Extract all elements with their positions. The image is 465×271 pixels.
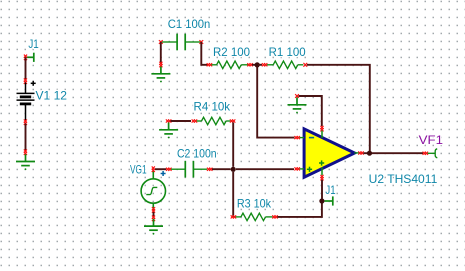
wire: [232, 123, 234, 167]
junction output: [367, 151, 372, 156]
svg-text:V1 12: V1 12: [36, 89, 68, 102]
capacitor C1: [162, 34, 200, 51]
node C2 right: [207, 168, 213, 171]
wire: [25, 124, 27, 151]
node VF1: [423, 152, 429, 155]
svg-text:R3 10k: R3 10k: [237, 198, 271, 211]
label J1: [28, 38, 38, 51]
node battery top: [24, 78, 27, 84]
node R3 left: [231, 215, 237, 218]
ground: [159, 123, 178, 139]
svg-text:J1: J1: [325, 184, 335, 197]
battery V1: [17, 81, 36, 121]
connector J1 out: [325, 196, 333, 205]
wire: [257, 67, 294, 138]
ground: [151, 67, 170, 83]
wire: [321, 180, 323, 199]
svg-text:C2 100n: C2 100n: [177, 147, 217, 160]
node R3 right: [272, 215, 278, 218]
wire: [171, 120, 192, 122]
wire: [155, 168, 166, 170]
resistor R4: [197, 117, 231, 125]
node C1 left: [159, 40, 163, 44]
wire feedback: [307, 65, 370, 151]
node -in: [294, 136, 300, 139]
generator VG1: [141, 171, 165, 212]
resistor R2: [212, 61, 249, 69]
label U2 THS4011: [369, 173, 438, 186]
label R2 100: [213, 46, 250, 59]
node C2 left: [166, 168, 172, 171]
wire: [299, 96, 322, 126]
node R2 left: [207, 63, 213, 66]
node VG1 bottom: [152, 207, 155, 213]
wire: [258, 64, 262, 66]
svg-text:R2 100: R2 100: [213, 46, 250, 59]
node VG1 top: [152, 166, 155, 172]
label C1 100n: [168, 18, 211, 31]
svg-text:R4 10k: R4 10k: [194, 101, 231, 114]
label R1 100: [269, 46, 306, 59]
node R4 left: [192, 119, 198, 122]
node battery bottom: [24, 119, 27, 125]
label VG1: [130, 164, 147, 177]
node R1 left: [262, 63, 268, 66]
label R3 10k: [237, 198, 271, 211]
node C1 right: [199, 40, 203, 44]
wire: [252, 64, 256, 66]
node +in: [294, 167, 300, 170]
label VF1: [419, 134, 443, 147]
label R4 10k: [194, 101, 231, 114]
svg-text:U2 THS4011: U2 THS4011: [369, 173, 438, 186]
plus marker: [161, 171, 166, 176]
svg-text:R1 100: R1 100: [269, 46, 306, 59]
svg-text:J1: J1: [28, 38, 38, 51]
wire: [153, 212, 155, 217]
node ground R4: [166, 119, 172, 122]
node R4 right: [230, 119, 236, 122]
svg-text:C1 100n: C1 100n: [168, 18, 211, 31]
junction J1 node: [319, 198, 324, 203]
ground: [288, 98, 307, 114]
probe VF1: [428, 149, 438, 158]
junction +in: [231, 167, 236, 172]
wire: [363, 152, 423, 154]
capacitor C2: [171, 161, 207, 178]
label C2 100n: [177, 147, 217, 160]
node R2 right: [247, 63, 253, 66]
wire: [232, 172, 234, 217]
connector J1: [24, 53, 34, 62]
node V- pin: [320, 175, 323, 181]
node R1 right: [303, 63, 307, 67]
wire: [201, 42, 207, 65]
node ground: [24, 149, 27, 155]
wire: [25, 57, 27, 79]
label J1 out: [325, 184, 335, 197]
wire: [236, 168, 294, 170]
ground: [144, 219, 163, 235]
wire: [277, 204, 322, 217]
op-amp U2: [300, 129, 360, 177]
wire: [212, 168, 231, 170]
node ground opamp: [295, 94, 299, 98]
wire: [160, 42, 162, 64]
node ground C1: [159, 62, 162, 68]
ground: [16, 154, 35, 170]
svg-text:VG1: VG1: [130, 164, 147, 177]
node output pin: [358, 151, 364, 154]
node V+ pin: [320, 126, 323, 132]
svg-text:VF1: VF1: [419, 134, 443, 147]
junction: [255, 62, 260, 67]
node ground VG1: [152, 216, 155, 222]
resistor R3: [236, 213, 273, 221]
resistor R1: [267, 61, 304, 69]
label V1 12: [36, 89, 68, 102]
